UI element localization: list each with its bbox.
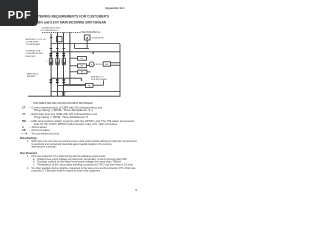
svg-text:REGISTER: REGISTER [26,56,36,58]
svg-text:22kV and 6.6 kV MAIN INCOMING: 22kV and 6.6 kV MAIN INCOMING SWITCHGEAR [36,20,106,24]
svg-text:CB: CB [22,129,26,132]
svg-text:To circuit breaker trip circui: To circuit breaker trip circuit [32,133,60,136]
svg-text:BREAKER: BREAKER [27,75,36,78]
svg-text:VT: VT [22,113,26,116]
svg-text:Plug rating = 5P/M, Time-Multi: Plug rating = 5P/M, Time-Multiplexer 5 [34,116,89,119]
svg-text:protection CT. But point shall: protection CT. But point shall be closed… [32,170,101,173]
svg-text:1.: 1. [27,140,29,143]
svg-text:CONFIDENTIAL LINKS: CONFIDENTIAL LINKS [26,52,44,55]
svg-text:METERING REQUIREMENTS FOR CUST: METERING REQUIREMENTS FOR CUSTOMER'S [33,15,110,19]
svg-text:c.: c. [33,163,35,166]
svg-text:E/L: E/L [81,58,84,60]
svg-text:E/L: E/L [81,72,84,74]
svg-text:E/L: E/L [81,66,84,68]
svg-text:KWH AND CT'S: KWH AND CT'S [91,75,104,78]
svg-text:VOLTAGE METER: VOLTAGE METER [92,37,104,40]
svg-text:CUSTOMER'S 22kV AND 6.6kV MAIN: CUSTOMER'S 22kV AND 6.6kV MAIN INCOMING … [33,101,93,105]
svg-text:CT: CT [22,106,26,109]
svg-text:PM: PM [22,120,26,123]
svg-text:*22kV/6.6kVMvrms: *22kV/6.6kVMvrms [81,31,101,34]
svg-text:CLP POWER NETWORK: CLP POWER NETWORK [40,30,58,32]
svg-text:POTENTIAL FUSE: POTENTIAL FUSE [26,50,41,53]
svg-text:1.: 1. [27,155,29,158]
svg-text:Plug rating = 5P/M, Time-Multi: Plug rating = 5P/M, Time-Multiplexer 5 s [34,109,94,112]
svg-text:TOLL ALTERNATE: TOLL ALTERNATE [26,43,41,46]
svg-text:services circuit.: services circuit. [32,146,57,149]
svg-text:PM: PM [88,86,91,88]
svg-text:M: M [86,37,88,40]
svg-text:2.: 2. [27,167,29,170]
svg-text:PDF: PDF [8,10,32,22]
svg-text:Appendix 11.1: Appendix 11.1 [105,6,125,10]
svg-text:Resistance of the secondary wi: Resistance of the secondary winding corr… [38,163,134,166]
svg-text:WITH SWITCHGEAR: WITH SWITCHGEAR [91,78,107,81]
